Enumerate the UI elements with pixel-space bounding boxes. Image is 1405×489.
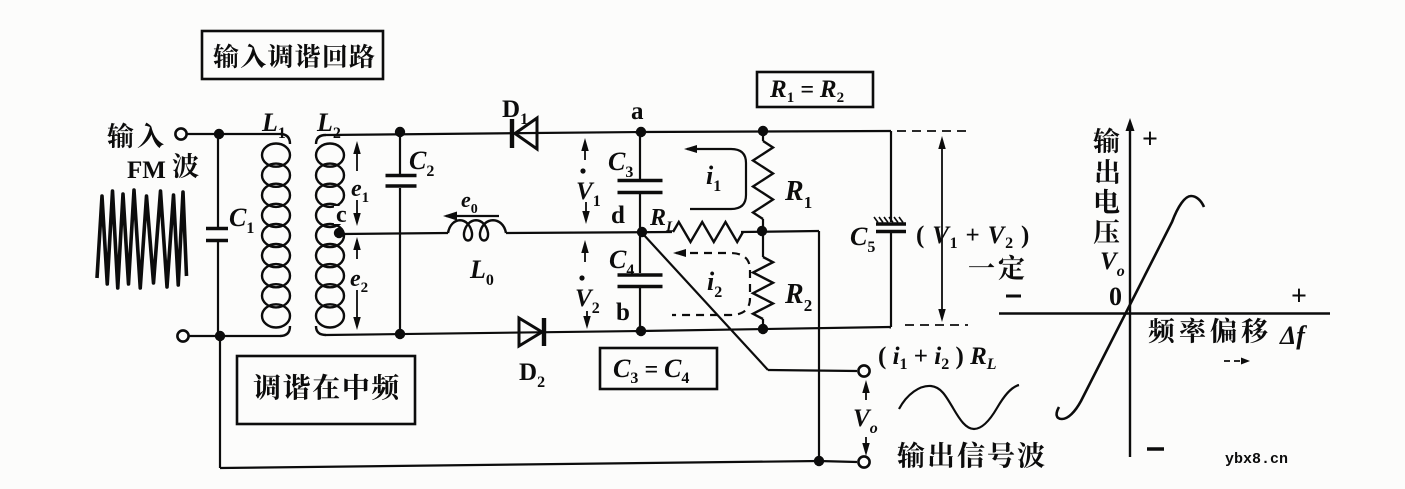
wire bottom rail left (input to L1 bottom) [186,326,290,336]
svg-text:R2: R2 [784,279,812,315]
capacitor C1 [206,229,228,241]
node b dot [636,326,646,336]
graph horizontal axis [999,312,1330,314]
svg-text:C5: C5 [850,222,875,256]
label V1 (phasor) [576,168,601,210]
label 输出信号波 (output signal wave) [897,442,1044,469]
svg-text:C3: C3 [608,147,633,181]
svg-text:b: b [616,299,630,326]
svg-text:c: c [336,202,347,228]
label box 输入调谐回路 (input tuned circuit) [202,31,383,79]
svg-text:e0: e0 [461,187,478,217]
junction dot C2 bottom [395,329,405,339]
output sine waveform sketch [899,385,1019,429]
arrow e0 (oscillator voltage) [443,212,499,221]
label a [631,98,644,125]
capacitor C4 wire upper [639,232,641,273]
label C2 [409,146,434,180]
wire bottom rail right (L2 bottom to C5 branch corner) [316,326,891,335]
label Vo [853,405,878,437]
label RL [649,205,675,235]
svg-text:C2: C2 [409,146,434,180]
wire bottom return horizontal [220,461,819,468]
label i1 [706,161,721,195]
capacitor C1 wire upper [217,134,219,227]
svg-text:d: d [611,202,625,229]
label 一定 (constant) [969,255,1024,280]
label C1 [229,203,254,237]
svg-text:0: 0 [1109,282,1122,311]
label box 调谐在中频 (tuned at IF) [237,356,415,424]
capacitor C4 wire lower [639,287,641,331]
capacitor C2 [386,176,417,187]
svg-text:L1: L1 [261,108,286,142]
graph plus right [1291,281,1307,312]
dashed tick top of V1+V2 arrow [897,130,968,132]
wire node d diagonal to output [643,234,768,370]
node d dot [637,227,647,237]
current loop i1 [684,145,746,209]
graph label Vo [1100,248,1125,280]
resistor RL (load, horizontal zigzag) [673,222,743,242]
graph label 输出电压 (output voltage, vertical) [1093,128,1119,244]
junction dot bottom-left [215,331,225,341]
dashed tick bottom of V1+V2 arrow [905,324,968,326]
svg-text:Vo: Vo [1100,248,1125,280]
svg-text:ybx8.cn: ybx8.cn [1225,451,1288,468]
arrow V1+V2 total [938,136,946,322]
label box C3 = C4 [600,348,717,389]
arrow V2 (voltage across C4) [581,240,591,329]
label C4 [609,245,634,279]
svg-text:e1: e1 [351,176,369,206]
current loop i2 (dashed) [672,249,750,315]
input terminal bottom [177,330,188,341]
wire middle rail (node c to R1R2 midpoint corner) [341,231,819,234]
label R2 [784,279,812,315]
svg-text:( V1 + V2 ): ( V1 + V2 ) [916,222,1030,252]
label D2 [519,359,545,391]
label d [611,202,625,229]
junction dot bottom return [814,456,824,466]
svg-text:FM: FM [127,157,166,184]
svg-text:e2: e2 [350,266,368,296]
inductor L0 [448,220,506,240]
label L0 [469,255,494,289]
wire top rail right (L2 top to C5 branch corner) [316,131,891,144]
label L2 [316,108,341,142]
wire C5 branch upper [890,131,892,222]
label box R1 = R2 [757,72,873,107]
wire to top output terminal [768,370,857,371]
capacitor C2 wire lower [399,188,401,334]
label D1 [502,96,528,128]
label e1 [351,176,369,206]
wire top rail left (input to L1 top) [186,134,290,144]
graph label 频率偏移 Δf (frequency deviation) [1149,317,1308,350]
label c [334,202,350,228]
svg-text:V1: V1 [576,178,601,210]
junction dot R2 bottom [758,324,768,334]
output terminal top [858,365,869,376]
junction dot R1 top [758,126,768,136]
label L1 [261,108,286,142]
capacitor C3 wire lower [639,194,641,232]
node a dot [636,127,646,137]
capacitor C5 (with hatched plate) [874,217,906,232]
svg-text:+: + [1142,124,1158,155]
label R1 [784,176,812,212]
graph plus top [1142,124,1158,155]
graph minus bottom [1147,447,1164,450]
svg-text:R1 = R2: R1 = R2 [769,76,844,106]
label ( V1 + V2 ) [916,222,1030,252]
label i2 [707,267,722,301]
diode D2 [519,318,544,346]
svg-text:+: + [1291,281,1307,312]
svg-text:L0: L0 [469,255,494,289]
svg-text:C3 = C4: C3 = C4 [613,354,689,387]
arrow V1 (voltage across C3) [581,138,590,224]
input terminal top [175,128,186,139]
junction dot top-left [214,129,224,139]
svg-text:R1: R1 [784,176,812,212]
label b [616,299,630,326]
wire C5 branch lower [890,233,892,327]
label C3 [608,147,633,181]
wire R1R2 midpoint down to output [818,231,820,461]
capacitor C4 [618,275,663,287]
label C5 [850,222,875,256]
FM input waveform sketch [97,190,187,288]
inductor L1 (primary coil) [262,144,290,328]
svg-text:L2: L2 [316,108,341,142]
junction dot R1R2 midpoint [757,226,767,236]
graph label 0 [1109,282,1122,311]
inductor L2 (secondary coil) [316,144,344,328]
label e2 [350,266,368,296]
svg-text:( i1 + i2 ) RL: ( i1 + i2 ) RL [878,343,997,373]
output terminal bottom [858,456,869,467]
diode D1 [512,118,537,149]
arrow e2 (lower secondary voltage) [353,237,361,330]
node c dot [334,228,344,238]
wire bottom return vertical [219,336,221,468]
svg-text:Vo: Vo [853,405,878,437]
svg-text:i1: i1 [706,161,721,195]
svg-text:Δf: Δf [1279,321,1307,350]
watermark ybx8.cn [1225,451,1288,468]
resistor R1 [753,131,773,231]
junction dot C2 top [395,127,405,137]
label ( i1 + i2 ) RL [878,343,997,373]
capacitor C1 wire lower [217,242,219,336]
arrow Vo upper [862,380,870,400]
svg-text:a: a [631,98,644,125]
resistor R2 [753,231,773,330]
graph vertical axis [1126,118,1135,457]
graph S-curve (discriminator characteristic) [1057,196,1204,419]
arrow e1 (upper secondary voltage) [353,141,361,226]
arrow Vo lower [862,437,870,456]
svg-text:RL: RL [649,205,675,235]
svg-text:C4: C4 [609,245,634,279]
svg-text:C1: C1 [229,203,254,237]
capacitor C3 wire upper [639,132,641,179]
capacitor C3 [618,181,663,193]
svg-text:D2: D2 [519,359,545,391]
label V2 (phasor) [575,275,600,317]
label FM 波 [127,153,199,184]
label e0 [461,187,478,217]
capacitor C2 wire upper [399,132,401,174]
svg-text:D1: D1 [502,96,528,128]
svg-text:i2: i2 [707,267,722,301]
label 输入 (input) [107,123,163,149]
minus tick below 一定 [1006,295,1021,298]
graph small arrow right below Δf [1224,358,1250,365]
wire to bottom output terminal [819,461,857,462]
